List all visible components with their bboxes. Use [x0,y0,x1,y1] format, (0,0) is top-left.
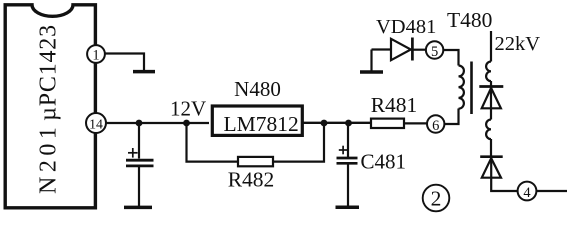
ground (input capacitor) [124,206,152,210]
wire regulator output rail [303,122,371,124]
diode VD481 [391,38,412,61]
pin 5 [426,41,443,60]
rectifier diode (lower, HV) [480,157,503,178]
svg-text:N201: N201 [36,123,62,194]
wire secondary to diode 2 [490,139,492,158]
node junction at C input cap [136,120,143,127]
svg-text:12V: 12V [170,97,206,121]
ground (VD481 anode) [360,50,383,73]
wire VD481 to pin 5 [413,49,426,51]
capacitor (input electrolytic) plus sign [128,148,138,158]
pin 4 [518,182,537,201]
figure number 2 [423,185,450,212]
svg-text:2: 2 [431,187,442,211]
wire pin 6 to primary bottom [444,109,458,125]
transformer T480 core [470,62,473,115]
rectifier diode (upper, HV) [479,87,503,120]
wire R482 bypass right leg [273,123,324,162]
wire pin14 rail to regulator input [106,122,209,124]
wire down to C481 [347,123,349,158]
wire pin 4 to edge [536,190,567,192]
svg-text:C481: C481 [361,150,407,174]
svg-text:4: 4 [523,185,531,201]
node junction C481 tap [345,120,352,127]
wire 22kV output lead [490,31,492,62]
regulator U N480 box [212,106,302,135]
wire ground to VD481 [372,48,392,50]
wire capacitor to ground [138,166,140,206]
svg-text:VD481: VD481 [376,16,436,38]
pin 1 [87,45,105,63]
wire secondary to diode 1 [490,81,492,88]
IC N201 µPC1423 body [5,5,95,208]
svg-text:14: 14 [89,117,103,132]
wire R482 bypass left leg [187,123,239,162]
capacitor C481 plus sign [339,146,348,155]
svg-text:R482: R482 [228,167,275,191]
pin 14 [86,113,106,133]
resistor R482 [238,157,273,166]
svg-text:6: 6 [432,118,439,134]
ground (pin 1) [133,70,155,74]
svg-text:5: 5 [431,44,438,60]
transformer T480 primary winding [459,66,464,109]
capacitor (input electrolytic) plates [126,160,154,166]
svg-text:1: 1 [92,48,99,64]
capacitor C481 plates [337,158,358,163]
pin 6 [427,115,444,134]
svg-text:22kV: 22kV [495,33,541,55]
wire C481 to ground [347,164,349,206]
resistor R481 [371,119,404,128]
wire pin1 to ground [105,54,144,71]
svg-text:R481: R481 [371,93,418,117]
svg-text:LM7812: LM7812 [224,112,299,136]
ground (C481) [336,206,360,210]
wire pin 5 to primary top [443,50,458,66]
svg-text:T480: T480 [447,8,492,32]
node junction at R482 tap [183,120,190,127]
svg-text:µPC1423: µPC1423 [36,24,62,121]
wire down to input capacitor [138,123,140,159]
transformer T480 secondary winding (lower) [486,120,491,140]
wire R481 to pin 6 [404,122,427,124]
wire diode 2 to pin 4 [491,178,517,191]
transformer T480 secondary winding (upper) [486,62,491,82]
node junction R482 return [321,120,328,127]
svg-text:N480: N480 [234,77,281,101]
